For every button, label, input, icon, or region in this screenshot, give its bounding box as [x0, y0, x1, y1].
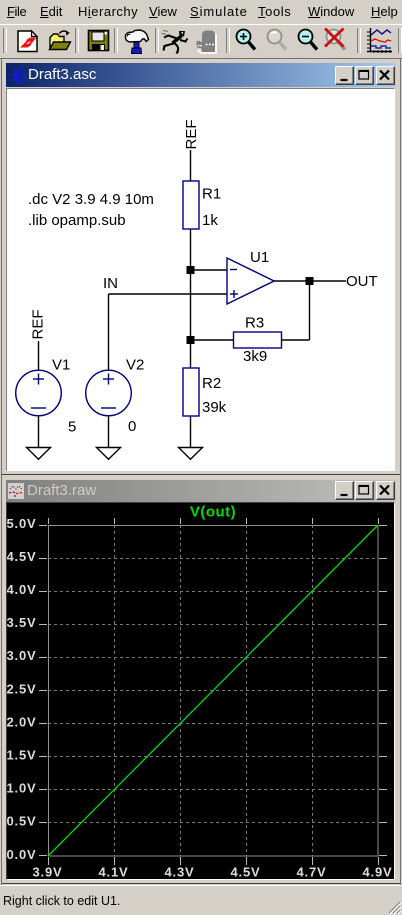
svg-text:4.5V: 4.5V [231, 865, 261, 878]
svg-text:.dc V2 3.9 4.9 10m: .dc V2 3.9 4.9 10m [28, 191, 154, 208]
svg-text:5: 5 [68, 419, 76, 436]
wire IN vertical to V2 [108, 294, 110, 370]
SCHEMATIC WINDOW [2, 59, 400, 475]
svg-text:R2: R2 [202, 375, 221, 392]
V2 source circle [86, 370, 132, 416]
resistor R1 body [183, 181, 199, 229]
V2 minus sign [101, 407, 116, 409]
svg-text:4.3V: 4.3V [165, 865, 195, 878]
ground GND2 under V2 [97, 448, 121, 460]
icon: zoom out [299, 30, 318, 50]
junction node at opamp minus [187, 266, 195, 274]
WAVEFORM WINDOW [2, 476, 400, 884]
schematic window icon [9, 66, 27, 84]
icon: open [50, 31, 71, 49]
svg-text:V1: V1 [52, 357, 70, 374]
svg-text:V(out): V(out) [190, 504, 236, 521]
svg-text:4.9V: 4.9V [363, 865, 393, 878]
wire IN horizontal to opamp plus input [109, 293, 228, 295]
svg-text:1.5V: 1.5V [7, 748, 36, 763]
title bar [6, 480, 396, 502]
svg-text:REF: REF [183, 120, 200, 150]
icon: run [162, 31, 188, 54]
icon: zoom full extents (disabled) [268, 30, 287, 50]
close button [376, 66, 395, 85]
ground GND1 under V1 [27, 448, 51, 460]
svg-text:3k9: 3k9 [243, 348, 267, 365]
wire opamp output [274, 280, 346, 282]
svg-text:0.0V: 0.0V [7, 847, 36, 862]
wire REF to R1 [190, 150, 192, 181]
canvas [6, 88, 395, 471]
minimize button [335, 66, 354, 85]
resistor R3 body [234, 332, 282, 348]
waveform window icon [8, 483, 24, 499]
icon: halt mitt (disabled) [196, 31, 216, 54]
V1 minus sign [31, 407, 46, 409]
plot border box [49, 526, 379, 857]
axis tick marks [39, 518, 387, 865]
x axis labels [33, 865, 393, 880]
svg-text:3.5V: 3.5V [7, 615, 36, 630]
svg-text:4.0V: 4.0V [7, 582, 36, 597]
trace V(out) [48, 525, 378, 856]
svg-text:5.0V: 5.0V [7, 516, 36, 531]
STATUS BAR [0, 885, 402, 915]
wire REF to V1 top [38, 341, 40, 371]
icon: save [89, 31, 109, 51]
svg-text:39k: 39k [202, 399, 227, 416]
junction node at output [306, 277, 314, 285]
wire V2 bottom to ground [108, 416, 110, 448]
icon: new schematic [18, 31, 37, 52]
wire R3 left to node [191, 339, 234, 341]
svg-text:.lib opamp.sub: .lib opamp.sub [28, 212, 126, 229]
wire node to opamp minus input [191, 269, 228, 271]
wire R2 bottom to ground [190, 416, 192, 448]
svg-text:U1: U1 [250, 249, 269, 266]
junction node at R3 left [187, 336, 195, 344]
V1 source circle [16, 370, 62, 416]
svg-text:REF: REF [30, 310, 47, 340]
y axis labels [7, 516, 37, 862]
plot client [6, 502, 395, 880]
icon: control panel hammer [126, 30, 149, 54]
icon: zoom undo (disabled, red X) [325, 29, 345, 50]
icon: waveform chart [367, 28, 392, 53]
svg-text:V2: V2 [126, 357, 144, 374]
svg-text:1.0V: 1.0V [7, 781, 36, 796]
svg-text:0: 0 [128, 418, 136, 435]
svg-text:2.5V: 2.5V [7, 681, 36, 696]
maximize button [355, 66, 374, 85]
svg-text:OUT: OUT [346, 273, 378, 290]
MENUBAR [0, 0, 402, 24]
op-amp minus sign [230, 269, 237, 271]
wire feedback vertical [309, 281, 311, 340]
schematic drawing [7, 89, 394, 470]
V2 plus sign [103, 378, 114, 380]
wire node to R2 top [190, 270, 192, 368]
svg-text:4.1V: 4.1V [99, 865, 129, 878]
wire V1 bottom to ground [38, 416, 40, 448]
op-amp U1 triangle [227, 258, 274, 304]
ground GND3 under R2 [179, 448, 203, 460]
svg-text:0.5V: 0.5V [7, 814, 36, 829]
op-amp plus sign [230, 293, 238, 295]
TOOLBAR [0, 24, 402, 59]
icon: zoom in [237, 30, 256, 50]
svg-text:4.7V: 4.7V [297, 865, 327, 878]
V1 plus sign [33, 378, 44, 380]
svg-text:2.0V: 2.0V [7, 714, 36, 729]
resistor R2 body [183, 368, 199, 416]
svg-text:3.9V: 3.9V [33, 865, 63, 878]
plot drawing [7, 503, 394, 877]
svg-text:4.5V: 4.5V [7, 549, 36, 564]
wire R1 bottom to node [190, 229, 192, 270]
title bar [6, 63, 396, 87]
svg-text:3.0V: 3.0V [7, 648, 36, 663]
wire feedback to R3 right [282, 339, 310, 341]
svg-text:R3: R3 [245, 315, 264, 332]
MDI top edge [0, 58, 402, 59]
svg-text:1k: 1k [202, 212, 218, 229]
svg-text:R1: R1 [202, 186, 221, 203]
grid dashed lines [48, 525, 378, 856]
svg-text:IN: IN [103, 275, 118, 292]
